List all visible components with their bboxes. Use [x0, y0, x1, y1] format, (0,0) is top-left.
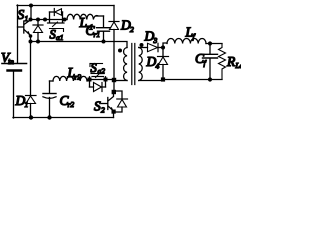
wire secondary top: [139, 47, 148, 49]
capacitor Cr1: [97, 16, 111, 42]
label Cf: [195, 51, 207, 68]
label S1: [18, 7, 29, 23]
diode antiparallel of S2: [114, 91, 128, 112]
node bottom-rail Cr2 junction: [47, 115, 51, 119]
svg-text:Ld: Ld: [235, 61, 242, 70]
diode D1: [26, 42, 37, 118]
label D3: [144, 29, 158, 46]
wire bottom rail: [13, 117, 114, 119]
node dot (64.5,19.5): [63, 18, 67, 22]
switch Sa1 antiparallel diode (top): [50, 9, 63, 20]
inductor Lf: [167, 39, 206, 44]
svg-text:in: in: [8, 57, 14, 66]
svg-text:r1: r1: [94, 30, 101, 39]
svg-text:2: 2: [130, 25, 134, 34]
wire Lf to load: [206, 43, 222, 45]
svg-text:2: 2: [101, 106, 105, 115]
capacitor Cr2: [43, 81, 56, 118]
transformer secondary winding: [139, 48, 142, 81]
node dot (210,43.5): [208, 41, 212, 45]
transformer core: [132, 44, 135, 85]
transistor S2: [102, 92, 114, 118]
inductor Lr2: [53, 76, 87, 81]
diode D2: [109, 6, 119, 93]
node dot (89.5,79.5): [88, 78, 92, 82]
wire S1 emitter to node: [29, 34, 33, 41]
node dot (30.5,19.5): [29, 18, 33, 22]
node dot (45,19.5): [43, 18, 47, 22]
wire Cr2 top corner: [50, 80, 54, 82]
node dot (30.5,41.5): [29, 40, 33, 44]
capacitor Cf: [203, 44, 218, 80]
label Lf: [185, 25, 196, 42]
svg-text:3: 3: [153, 36, 158, 45]
label Sa2: [90, 61, 105, 76]
svg-text:R: R: [226, 54, 236, 69]
svg-text:S: S: [91, 61, 98, 75]
label Cr2: [60, 93, 75, 109]
wire D3 to Lf: [163, 43, 167, 48]
label Sa1: [50, 28, 64, 43]
node dot (163,79.5): [161, 77, 165, 81]
switch Sa2 antiparallel diode (below): [90, 80, 106, 92]
svg-text:r2: r2: [75, 73, 82, 82]
inductor Lr1: [67, 14, 104, 19]
transformer primary winding: [124, 48, 127, 81]
svg-text:S: S: [18, 7, 25, 22]
svg-text:f: f: [193, 32, 196, 41]
wire left rail: [17, 5, 19, 63]
label Lr1: [79, 15, 94, 32]
resistor RLd: [219, 44, 226, 80]
wire S1 collector riser: [30, 6, 32, 20]
svg-text:S: S: [94, 99, 101, 114]
diode D4 freewheel: [158, 48, 169, 80]
wire collector node y19: [31, 19, 68, 21]
node dot (210,79.5): [208, 77, 212, 81]
diode antiparallel of S1: [33, 20, 43, 42]
wire output bottom rail: [139, 80, 222, 81]
svg-text:1: 1: [25, 14, 29, 23]
node dot (103.5,41.5): [102, 40, 106, 44]
node square (114,80): [112, 78, 116, 82]
label Cr1: [86, 23, 101, 39]
transistor S1: [18, 20, 31, 36]
label Vin: [1, 50, 14, 66]
wire Sa2 node: [87, 79, 114, 81]
node bottom-rail D1 junction: [29, 115, 33, 119]
svg-text:a2: a2: [98, 67, 106, 76]
svg-text:r2: r2: [68, 100, 75, 109]
wire top rail: [17, 5, 114, 7]
label RLd: [226, 54, 244, 70]
label S2: [94, 99, 105, 115]
transformer secondary polarity dot: [140, 43, 144, 47]
svg-text:a1: a1: [56, 33, 64, 42]
switch Sa1 mosfet body: [48, 20, 65, 32]
label D2: [120, 18, 134, 35]
svg-text:1: 1: [25, 100, 29, 109]
wire primary bottom to node: [114, 80, 127, 82]
diode D3: [148, 43, 164, 51]
label Lr2: [67, 65, 82, 82]
switch Sa2 mosfet body: [90, 70, 106, 80]
label D1: [15, 93, 29, 109]
node dot (38,41.5): [36, 40, 40, 44]
battery Vin: [2, 64, 27, 119]
node dot S2 emitter: [112, 110, 116, 114]
node top-rail S1 junction: [29, 4, 33, 8]
label D4: [146, 54, 160, 71]
node dot (38,19.5): [36, 18, 40, 22]
wire emitter node y41 to transformer: [31, 42, 128, 48]
node dot (105.5,79.5): [104, 78, 108, 82]
svg-text:f: f: [204, 59, 207, 68]
svg-text:4: 4: [156, 62, 160, 71]
node dot (163,47.5): [161, 45, 165, 49]
transformer primary polarity dot: [118, 49, 122, 53]
node square (113.8,92): [112, 90, 116, 94]
